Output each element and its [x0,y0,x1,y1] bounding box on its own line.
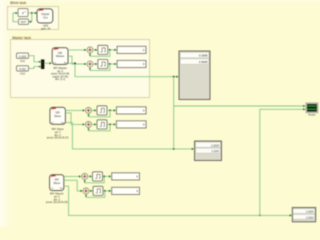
svg-text:dim: [1 2]: dim: [1 2] [55,78,65,81]
wire SPI Slave1 out1 to sum [64,175,81,177]
wire hold to display [108,49,116,51]
SPI Slave block [50,107,66,124]
svg-text:Out: Out [43,16,48,20]
svg-text:Slave: Slave [54,114,61,118]
wire SPI Slave1 Rx to display [64,186,291,215]
wire NOT to unit delay feedback [13,13,19,22]
wire sum to hold [89,190,92,192]
feedback loop wire [90,64,110,70]
svg-text:Master task: Master task [12,36,31,40]
group box Blink task [8,7,59,30]
Digital Out block [37,9,53,23]
wire sum to hold [93,49,97,51]
svg-text:Master: Master [56,54,65,58]
wire hold to display [107,109,116,111]
feedback loop wire [86,191,105,197]
wire to scope input 1 [174,105,305,107]
zero-order hold block [97,106,107,115]
feedback loop wire [89,110,111,116]
wire SPI Master Rx to big display [68,63,178,76]
unit delay block [18,9,28,17]
zero-order hold block [97,120,107,129]
svg-text:pinsel: [36,35,34,37]: pinsel: [36,35,34,37] [47,137,69,140]
wire hold to display [107,123,116,125]
wire SPI Slave1 out2 to sum [64,180,82,191]
display block master Rx [179,51,210,100]
svg-text:Blink task: Blink task [10,1,26,5]
feedback loop wire [85,176,105,182]
NOT block [19,19,29,24]
wire hold to display [103,190,111,192]
sum block [87,61,93,67]
zero-order hold block [98,59,108,68]
SPI Master block [52,48,68,65]
scope block [306,103,318,113]
display block [112,173,140,180]
svg-text:1.1110: 1.1110 [211,149,219,153]
wire sum to hold [92,123,97,125]
svg-text:0.5000: 0.5000 [199,60,208,64]
display block slave Rx [195,141,222,161]
wire hold to display [103,175,111,177]
svg-text:1.2220: 1.2220 [211,143,219,147]
svg-text:gpio: 24: gpio: 24 [41,27,51,31]
wire Ch2 to mux [29,67,41,69]
wire sum to hold [93,63,97,65]
display block [117,60,146,67]
group box Master task [11,40,150,98]
display block [117,46,146,53]
wire SPI Slave out2 to sum [65,113,84,125]
display block [112,187,140,194]
wire branch to NOT [29,13,32,22]
display block [116,121,146,128]
svg-text:Scope: Scope [308,113,316,117]
sum block [82,173,88,179]
wire mux to SPI Master [44,62,51,64]
wire to scope input 2 [260,109,305,215]
zero-order hold block [93,172,103,181]
svg-text:Slave: Slave [53,181,60,185]
svg-text:4.111: 4.111 [19,67,26,71]
svg-text:NOT: NOT [21,20,27,24]
sum block [83,188,89,194]
SPI Slave1 block [50,175,64,191]
wire SPI Master out1 to sum [68,49,86,51]
wire sum to hold [92,109,97,111]
svg-text:0.2000: 0.2000 [199,54,208,58]
wire SPI Slave out1 to sum [65,109,84,111]
svg-text:Ch2: Ch2 [20,72,25,76]
mux block [41,60,44,69]
svg-text:1.2220: 1.2220 [306,211,314,214]
display block slave1 Rx [292,208,315,222]
wire unit delay to Digital Out [28,12,37,14]
display block [116,107,146,114]
constant Ch2 [17,66,29,71]
wire SPI Master out2 to sum [68,56,86,64]
svg-text:Ch1: Ch1 [20,59,25,63]
feedback loop wire [90,50,110,56]
wire SPI Slave Rx to display [65,123,193,149]
wire hold to display [108,63,116,65]
sum block [87,47,93,53]
zero-order hold block [93,186,103,195]
feedback loop wire [89,124,111,130]
sum block [86,121,92,127]
wire sum to hold [88,175,92,177]
constant Ch1 [17,53,29,58]
sum block [86,107,92,113]
svg-text:2.1110: 2.1110 [306,216,314,219]
wire Ch1 to mux [29,56,41,62]
zero-order hold block [98,45,108,54]
wire branch vertical to scope [173,77,175,149]
svg-text:1.222: 1.222 [19,54,27,58]
svg-text:pinsel: [26,29,40,39]: pinsel: [26,29,40,39] [46,201,68,204]
